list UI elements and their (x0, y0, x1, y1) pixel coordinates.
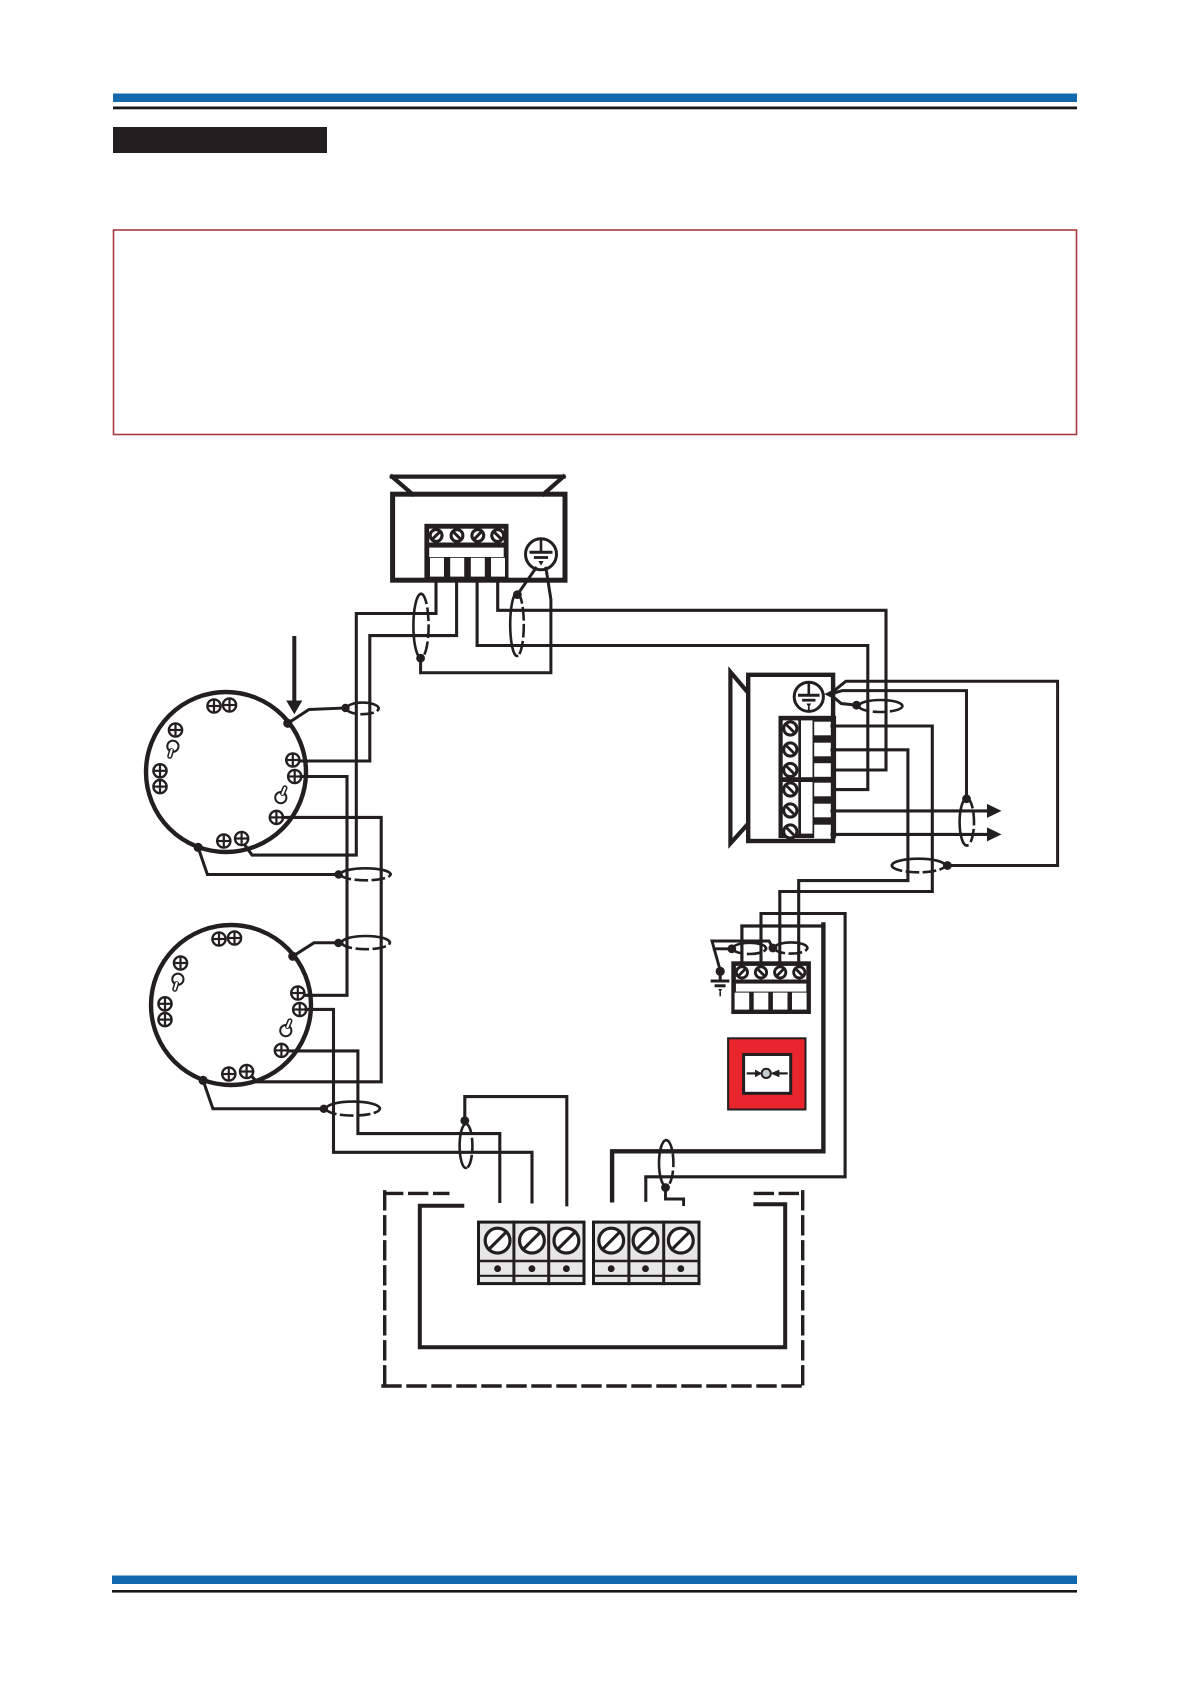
junction dot detector1 bottom (194, 843, 203, 852)
wire: detector2 junction to cable sheath dot (293, 943, 339, 957)
wall sounder horn (730, 672, 747, 844)
call point terminal screw 2 (755, 967, 766, 978)
cable sheath ellipse (bell to detector1 cable) (413, 594, 421, 658)
wire: sounder sq2 to call point s4 (799, 750, 908, 962)
control panel dashed enclosure border (383, 1192, 804, 1386)
cable sheath ellipse (bell to sounder cable) (510, 593, 517, 656)
footer black rule (112, 1590, 1077, 1593)
junction dot B (769, 944, 778, 953)
smoke detector base 1 (146, 692, 306, 852)
wire: sheath drain to panel terminal B3 (666, 1188, 684, 1205)
wire: sheath A drain to call point earth (714, 947, 732, 950)
detector 2 keyhole slot (upper left) (172, 974, 183, 990)
wire: detector2 bottom junction to sheath dot (203, 1080, 324, 1108)
wire: bell sq2 to detector1 right screw R1 (299, 580, 456, 761)
junction dot (334, 939, 342, 947)
wire: earth to top-right loop (830, 681, 1058, 865)
location arrow pointing to detector 1 (286, 638, 302, 714)
wire: detector2 R3 to panel terminal A1 (288, 1051, 500, 1202)
junction dot on sheath (416, 654, 425, 663)
wire: sounder sq5 output (arrow) (832, 804, 1002, 818)
cable sheath ellipse below detector1 (341, 868, 391, 874)
sounder earth terminal symbol (794, 682, 823, 711)
wire: earth to output cable sheath dot (830, 691, 967, 799)
wire: sheath B drain to call point earth (712, 941, 773, 970)
call point terminal screw 4 (794, 967, 805, 978)
wire: detector2 R2 to panel terminal A2 (306, 1009, 532, 1202)
junction dot detector2 top-right (288, 952, 297, 961)
wire: call point s1 to panel terminal B1 (742, 926, 824, 961)
wire: detector1 junction to cable sheath dot (288, 708, 345, 723)
header black rule (113, 107, 1077, 110)
bell top cover (trapezoid) (392, 477, 564, 495)
detector 2 screw (left pair bottom) (158, 1013, 171, 1026)
cable sheath ellipse A above call point block (733, 943, 766, 949)
detector 1 terminal screw R2 (288, 770, 301, 783)
wire: bell sq4 to sounder sq3 (498, 580, 886, 770)
junction dot (334, 870, 342, 878)
bell terminal screw 4 (492, 530, 504, 542)
call point terminal screw 1 (736, 967, 747, 978)
cable sheath ellipse below detector2 (326, 1102, 380, 1109)
earth crowfoot arrowhead at sounder earth (824, 689, 834, 699)
junction dot on sheath (513, 590, 522, 599)
sounder terminal screw 2 (784, 743, 797, 756)
smoke detector base 2 (151, 925, 311, 1085)
detector 2 screw (top pair left) (212, 932, 225, 945)
sounder terminal screw 5 (784, 804, 797, 817)
cable sheath ellipse (call point cable at panel) (659, 1140, 666, 1186)
wire: call point s2 to panel terminal B2 (646, 914, 845, 1201)
sounder terminal block (779, 716, 837, 839)
cable sheath ellipse right of sounder earth (859, 700, 903, 706)
panel terminal block B (sounder/call point) (594, 1222, 700, 1284)
wire: detector1 R3 to detector2 bottom screw (249, 817, 381, 1081)
detector 1 screw (bottom pair right) (235, 832, 248, 845)
wire: sounder sq6 output (arrow) (832, 827, 1002, 841)
cable sheath ellipse (panel zone cable) (460, 1124, 466, 1168)
panel terminal block A (zone) (479, 1222, 585, 1284)
bell terminal block (424, 524, 508, 579)
junction dot on call point cable sheath (661, 1183, 670, 1192)
detector 1 screw (upper left) (169, 723, 182, 736)
bell body box (393, 494, 565, 580)
sounder terminal screw 4 (784, 783, 797, 796)
bell terminal screw 3 (472, 530, 484, 542)
detector 2 screw (bottom pair right) (240, 1065, 253, 1078)
detector 2 terminal screw R3 (275, 1044, 288, 1057)
wire: bell earth left leg to sheath dot (517, 568, 535, 594)
call point terminal block (731, 961, 811, 1014)
control panel solid outline (420, 1204, 785, 1347)
junction dot on lower cable sheath (943, 861, 952, 870)
wire: bell sq1 to detector1 bottom screw (245, 580, 437, 855)
junction dot A (727, 944, 736, 953)
junction dot detector2 bottom (199, 1076, 208, 1085)
cable sheath ellipse below sounder (892, 859, 945, 866)
junction dot on sheath (962, 794, 971, 803)
junction dot (852, 701, 861, 710)
junction dot (341, 704, 349, 712)
header blue rule (113, 94, 1077, 103)
detector 2 screw (bottom pair left) (222, 1067, 235, 1080)
cable sheath ellipse B above call point block (775, 942, 808, 948)
detector 2 terminal screw R1 (291, 986, 304, 999)
detector 2 screw (upper left) (174, 956, 187, 969)
cable sheath ellipse (output pair) (960, 799, 967, 846)
sounder terminal screw 1 (784, 722, 797, 735)
wire: sheath drain to bell earth (right leg) (421, 568, 551, 673)
manual call point (red) (728, 1038, 805, 1109)
bell terminal screw 2 (451, 530, 463, 542)
wall sounder body box (748, 675, 833, 841)
detector 2 keyhole slot (lower right) (280, 1021, 291, 1036)
call point earth ground symbol (712, 971, 728, 995)
detector 1 keyhole slot (lower right) (275, 788, 286, 803)
call point terminal screw 3 (775, 967, 786, 978)
wire: earth to lower cable sheath dot (830, 694, 857, 705)
detector 2 screw (top pair right) (228, 931, 241, 944)
bell earth terminal symbol (526, 539, 557, 570)
title redaction block (113, 127, 327, 153)
detector 1 screw (bottom pair left) (217, 834, 230, 847)
wire: panel terminal A3 feed with cable sheath (465, 1097, 567, 1205)
detector 1 terminal screw R3 (270, 811, 283, 824)
sounder terminal screw 6 (784, 825, 797, 838)
footer blue rule (112, 1576, 1077, 1585)
junction dot (320, 1105, 328, 1113)
junction dot (460, 1116, 469, 1125)
wire: detector1 bottom junction to sheath dot (198, 847, 339, 874)
detector 1 screw (left pair bottom) (153, 780, 166, 793)
wire: bell sq3 to sounder sq4 (477, 580, 868, 789)
detector 2 screw (left pair top) (158, 997, 171, 1010)
detector 1 screw (top pair left) (207, 699, 220, 712)
note box (red border) (114, 230, 1077, 435)
bell terminal screw 1 (430, 530, 442, 542)
junction dot detector1 top-right (283, 719, 292, 728)
call point earth junction dot (716, 967, 725, 976)
detector 1 screw (top pair right) (223, 698, 236, 711)
detector 1 screw (left pair top) (153, 764, 166, 777)
detector 1 terminal screw R1 (286, 753, 299, 766)
detector 2 terminal screw R2 (293, 1003, 306, 1016)
detector 1 keyhole slot (upper left) (167, 741, 178, 757)
cable sheath ellipse above detector2 (342, 936, 390, 943)
wire: sounder sq1 to call point s3 (780, 726, 933, 962)
wire: detector1 R2 to detector2 R1 (301, 777, 347, 996)
cable sheath ellipse above detector1 (347, 703, 379, 709)
sounder terminal screw 3 (784, 763, 797, 776)
